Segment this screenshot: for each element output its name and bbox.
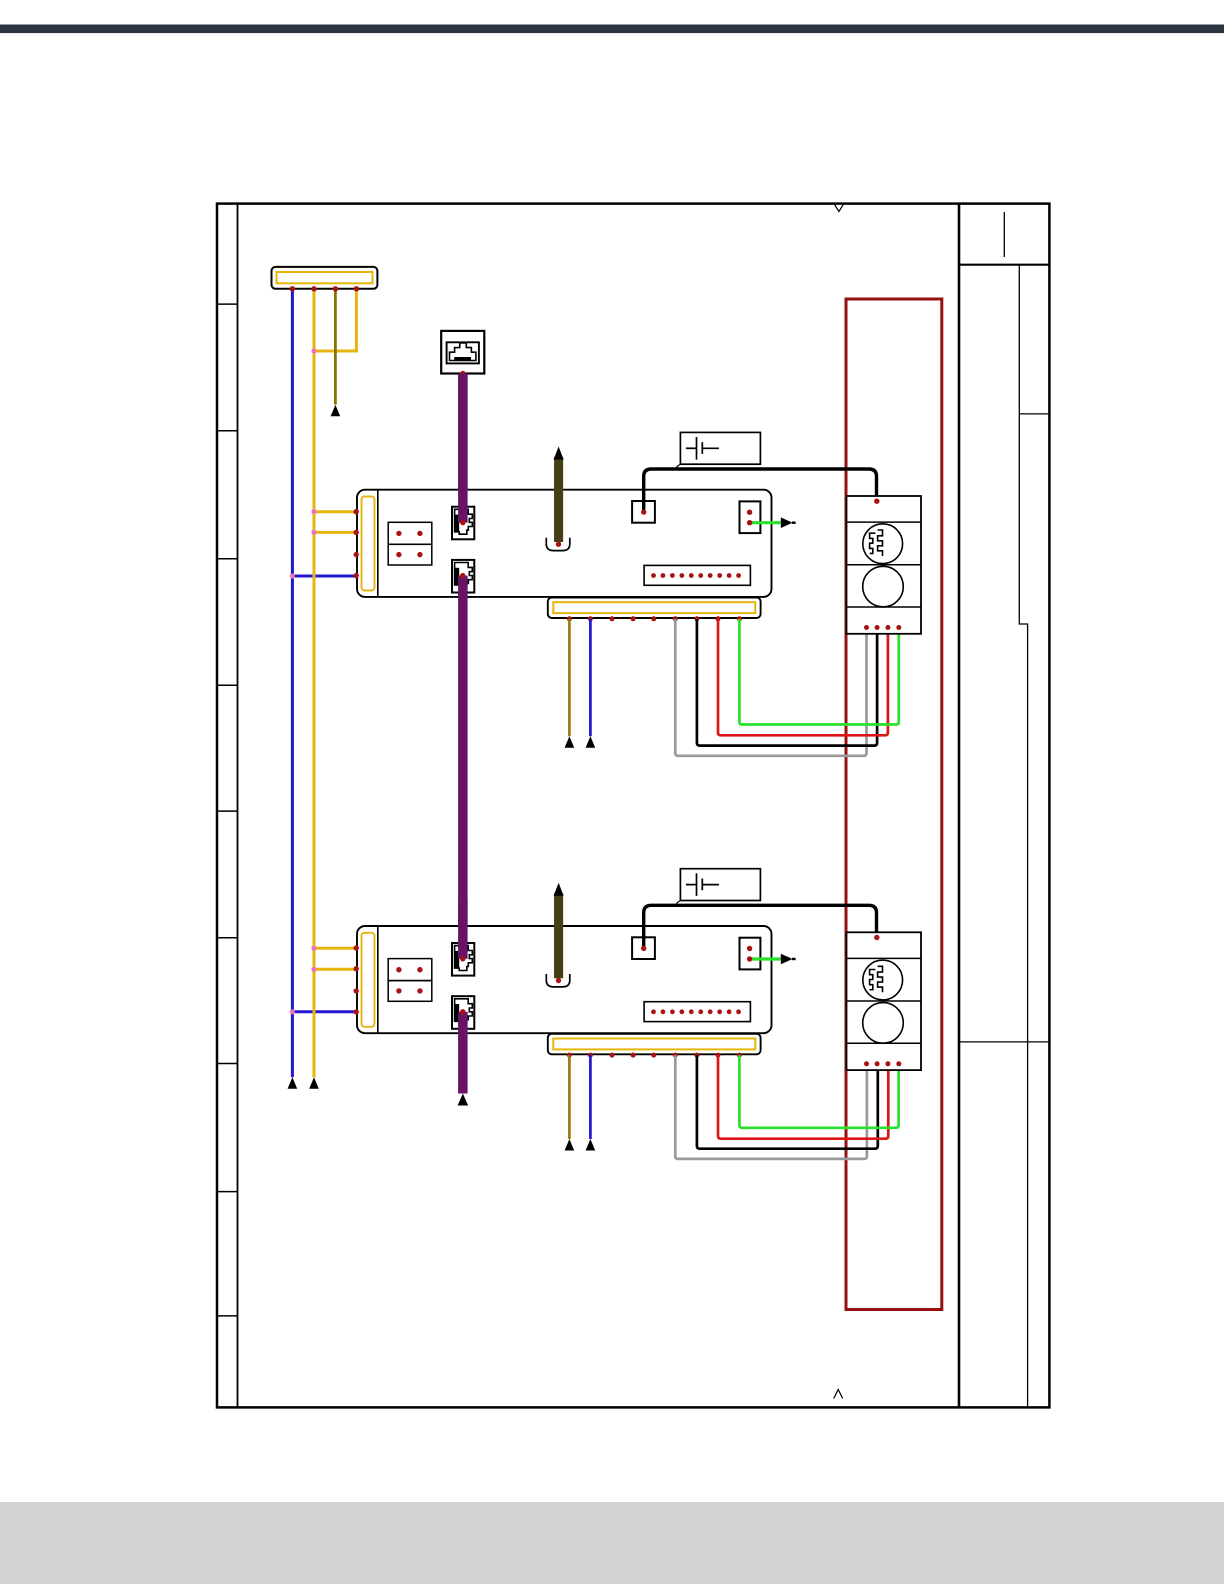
sheet border frame — [217, 204, 1049, 1408]
tone generator circle B — [863, 960, 903, 1000]
antenna A pin — [556, 542, 561, 547]
pin dot module A jack1 — [460, 520, 465, 525]
capacitor leader A — [676, 464, 681, 469]
wire green output B — [750, 957, 781, 960]
continuation arrow blue — [288, 1077, 298, 1089]
continuation arrow olive B — [565, 1139, 575, 1151]
connector C1 cavity — [277, 272, 373, 283]
pin box A (black wire) — [632, 501, 655, 523]
wire gold tap B2 — [314, 968, 356, 971]
capacitor symbol A — [686, 437, 719, 460]
antenna B base cup — [546, 974, 570, 987]
bottom connector B pins — [567, 1053, 742, 1058]
pin strip A — [644, 565, 750, 585]
bottom connector B — [548, 1034, 761, 1055]
sounder box B divider 2 — [847, 1000, 922, 1002]
title block inner vertical line — [1019, 265, 1027, 1408]
antenna B pin — [556, 978, 561, 983]
RJ45 wall jack J1 contact bar — [454, 357, 471, 360]
sounder box B divider 1 — [847, 957, 922, 959]
sounder box A — [847, 496, 922, 634]
title block left border — [958, 204, 961, 1408]
connector C1 (top-left) — [272, 267, 378, 289]
wire olive B bottom — [568, 1055, 571, 1139]
pin strip A dots — [651, 573, 741, 578]
pin box A (green wire) — [740, 501, 761, 533]
sounder box B — [847, 932, 922, 1070]
speaker circle B — [863, 1003, 904, 1044]
sounder A bottom pins — [864, 625, 901, 630]
pin strip B dots — [651, 1009, 741, 1014]
title block top cell tick — [1003, 212, 1005, 257]
wire blue vertical — [291, 289, 294, 1077]
module A left edge pins — [354, 509, 359, 578]
RJ45 wall jack J1 face — [450, 343, 476, 361]
bottom connector A — [548, 598, 761, 619]
pin strip B — [644, 1002, 750, 1022]
antenna A tip — [554, 447, 564, 460]
wire black A to sounder — [644, 469, 877, 512]
module A edge connector strip — [362, 497, 375, 591]
wire green A to sounder — [739, 619, 898, 725]
capacitor box B — [680, 869, 760, 901]
module B left edge pins — [354, 945, 359, 1014]
pin dot J1 — [460, 371, 465, 376]
top centering mark — [835, 205, 844, 212]
left margin zone ticks — [217, 304, 238, 1316]
tone generator circle A — [863, 524, 903, 564]
antenna A base cup — [546, 538, 570, 551]
capacitor box A — [680, 432, 760, 464]
RJ45 wall jack J1 outer — [441, 331, 484, 374]
module B body — [357, 926, 772, 1033]
sounder box B divider 3 — [847, 1042, 922, 1044]
wire black A to sounder — [697, 619, 877, 746]
module B RJ45 jack 2 — [452, 996, 474, 1029]
wire purple entering module B jack1 — [458, 900, 468, 959]
pin dot module A jack2 — [460, 573, 465, 578]
wire blue tap to module B pin — [292, 1010, 356, 1013]
wire olive from C1 pin3 — [334, 289, 337, 405]
wire maroon loop — [846, 299, 942, 1310]
wire gray B to sounder — [675, 1055, 867, 1159]
sounder B bottom pins — [864, 1061, 901, 1066]
module A pin block dots — [396, 531, 422, 558]
wire blue tap to module A pin — [292, 575, 356, 578]
bottom connector A pins — [567, 616, 742, 621]
wire green output A — [750, 521, 781, 524]
tone generator symbol A — [870, 530, 883, 556]
wire green B to sounder — [739, 1055, 898, 1128]
wire black B to sounder — [644, 905, 877, 948]
sounder A top pin — [874, 499, 879, 504]
module B pin block lower — [388, 981, 432, 1002]
wire black B to sounder — [697, 1055, 878, 1148]
wire blue A bottom — [589, 619, 592, 736]
arrow green output B — [781, 954, 796, 965]
arrow green output A — [781, 517, 796, 528]
sounder B top pin — [874, 935, 879, 940]
capacitor symbol B — [686, 873, 719, 896]
sounder box A divider 2 — [847, 564, 922, 566]
continuation arrow olive A — [565, 736, 575, 748]
wire gold vertical — [313, 289, 316, 1077]
wire purple J1 to module A — [458, 374, 468, 523]
wire gold tap A2 — [314, 531, 356, 534]
bottom centering mark — [834, 1390, 843, 1399]
wire gold tap B1 — [314, 947, 356, 950]
wire gold jumper from pin4 — [314, 289, 356, 351]
continuation arrow gold — [309, 1077, 319, 1089]
wire blue B bottom — [589, 1055, 592, 1139]
antenna B mast — [554, 893, 563, 978]
capacitor leader B — [676, 901, 681, 906]
module A RJ45 jack 1 — [452, 507, 474, 540]
continuation arrow olive — [331, 405, 341, 417]
antenna A mast — [554, 457, 563, 542]
footer bar — [0, 1502, 1224, 1584]
wire purple module B jack2 output — [458, 1012, 468, 1094]
continuation arrow blue A — [586, 736, 596, 748]
title block divider h2 — [959, 1041, 1049, 1043]
wire red A to sounder — [718, 619, 888, 735]
module B RJ45 jack 1 — [452, 943, 474, 976]
pin box B green dots — [747, 946, 752, 962]
continuation arrow blue B — [586, 1139, 596, 1151]
pin box A dot — [641, 509, 646, 514]
module A inner divider — [377, 490, 379, 597]
bottom connector B cavity — [553, 1039, 755, 1050]
bottom connector A cavity — [553, 602, 755, 613]
left margin column line — [237, 204, 239, 1408]
module B edge connector strip — [362, 933, 375, 1027]
antenna B tip — [554, 883, 564, 896]
sounder box A divider 1 — [847, 521, 922, 523]
module B pin block dots — [396, 967, 422, 994]
pin box B (black wire) — [632, 937, 655, 959]
header bar — [0, 25, 1224, 34]
title block top cell divider — [959, 264, 1049, 266]
wire purple module A jack1 lead-in — [458, 374, 468, 523]
pin dot module B jack1 — [460, 956, 465, 961]
pin box A green dots — [747, 510, 752, 526]
sounder box A divider 3 — [847, 606, 922, 608]
module A RJ45 jack 2 — [452, 560, 474, 593]
module B inner divider — [377, 926, 379, 1033]
module B pin block upper — [388, 959, 432, 981]
junction pins of C1 — [290, 286, 359, 291]
module A body — [357, 490, 772, 597]
wire red B to sounder — [718, 1055, 888, 1138]
speaker circle A — [863, 566, 904, 607]
continuation arrow purple B — [458, 1094, 469, 1106]
wire gray A to sounder — [675, 619, 866, 756]
module A pin block upper — [388, 522, 432, 544]
pin dot module B jack2 — [460, 1009, 465, 1014]
wire olive A bottom — [568, 619, 571, 736]
junction dots pink — [290, 348, 317, 1014]
pin box B (green wire) — [740, 938, 761, 970]
tone generator symbol B — [870, 966, 883, 992]
wire purple module A jack2 to module B jack1 — [458, 576, 468, 959]
wire gold tap A1 — [314, 510, 356, 513]
module A pin block lower — [388, 544, 432, 565]
title block divider h1 — [1019, 413, 1049, 415]
RJ45 wall jack J1 mid — [447, 342, 479, 363]
pin box B dot — [641, 946, 646, 951]
